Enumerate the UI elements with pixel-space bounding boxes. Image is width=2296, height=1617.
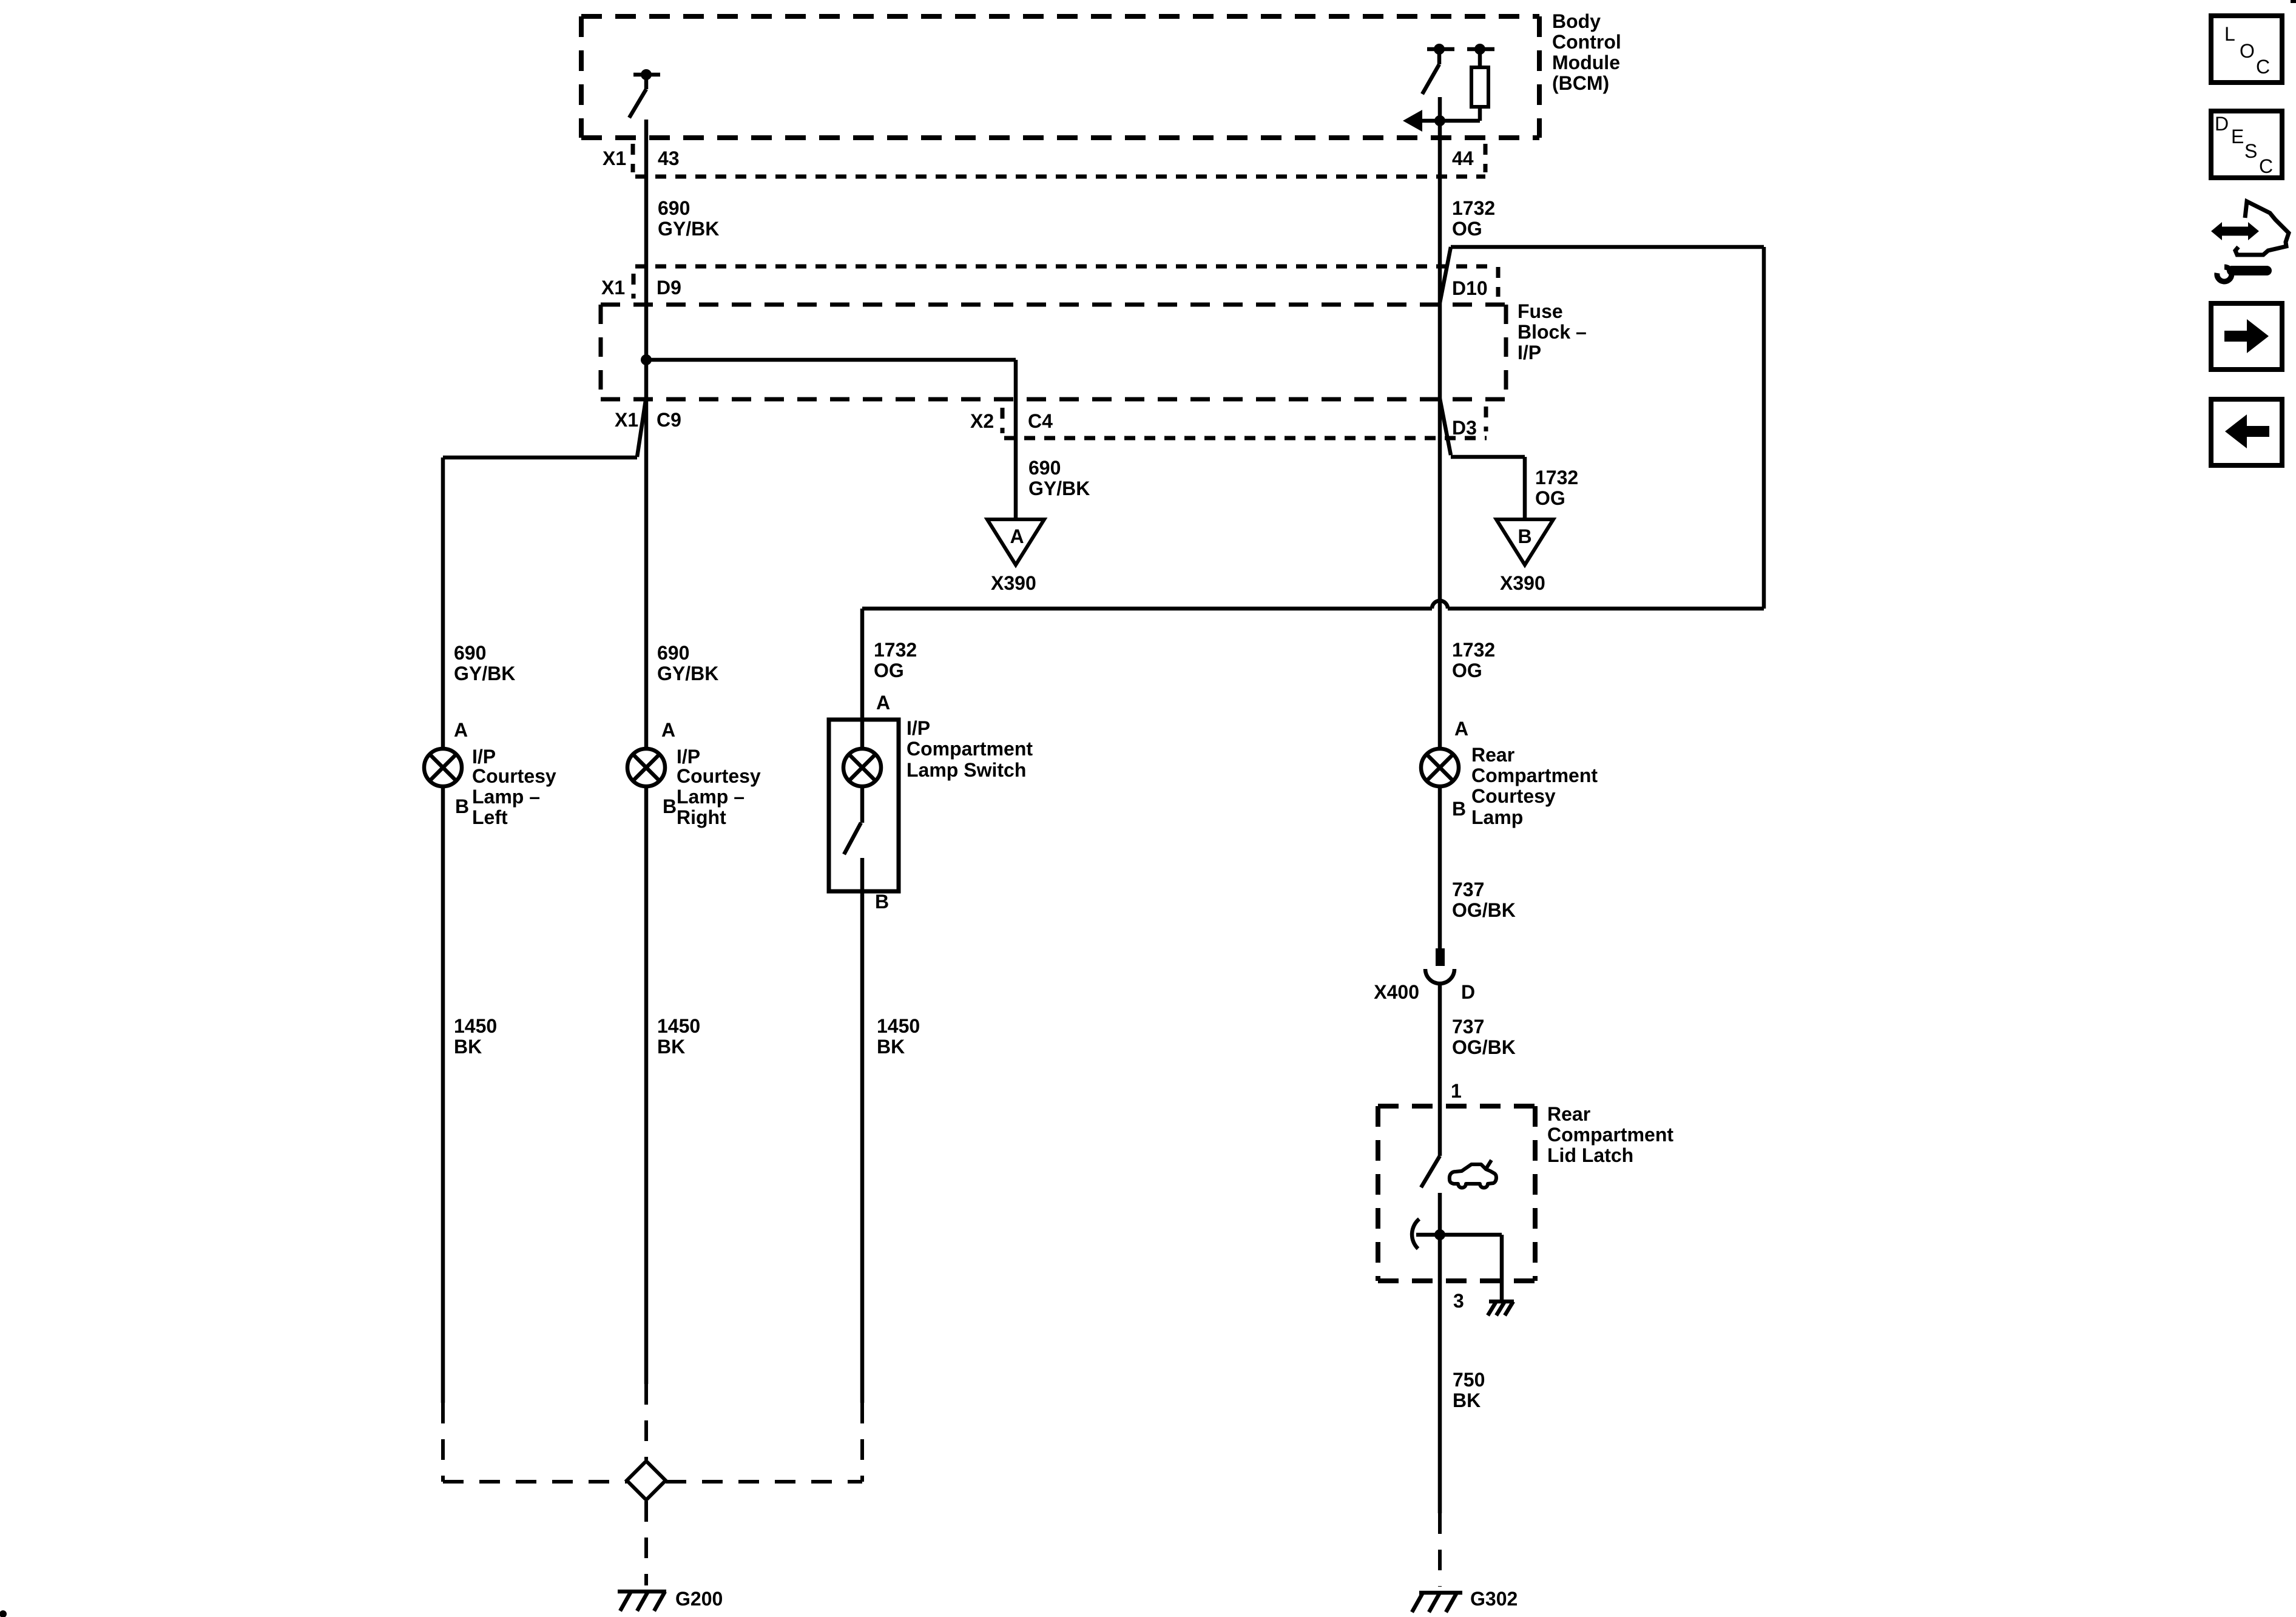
svg-text:1732: 1732 xyxy=(1452,639,1495,661)
svg-text:I/P: I/P xyxy=(907,717,930,739)
svg-text:C: C xyxy=(2256,56,2270,78)
svg-text:Lid Latch: Lid Latch xyxy=(1547,1144,1633,1166)
svg-text:3: 3 xyxy=(1453,1290,1464,1312)
svg-text:I/P: I/P xyxy=(677,746,700,768)
svg-text:D10: D10 xyxy=(1452,277,1488,299)
svg-text:690: 690 xyxy=(1028,457,1061,479)
svg-text:A: A xyxy=(1010,525,1024,547)
svg-text:1450: 1450 xyxy=(454,1015,497,1037)
svg-text:Rear: Rear xyxy=(1471,744,1514,766)
svg-text:43: 43 xyxy=(658,147,680,169)
svg-text:1732: 1732 xyxy=(1452,197,1495,219)
svg-text:OG/BK: OG/BK xyxy=(1452,1036,1516,1058)
svg-text:Compartment: Compartment xyxy=(1547,1124,1673,1146)
svg-text:B: B xyxy=(1452,798,1466,820)
svg-text:690: 690 xyxy=(657,642,689,664)
svg-text:A: A xyxy=(661,719,675,741)
svg-text:G200: G200 xyxy=(675,1588,723,1610)
svg-text:B: B xyxy=(663,795,677,817)
svg-text:737: 737 xyxy=(1452,879,1484,900)
svg-text:Control: Control xyxy=(1552,31,1621,53)
svg-text:B: B xyxy=(875,891,889,913)
svg-text:BK: BK xyxy=(657,1036,685,1058)
svg-text:BK: BK xyxy=(877,1036,905,1058)
svg-text:BK: BK xyxy=(1453,1389,1481,1411)
svg-text:Courtesy: Courtesy xyxy=(472,765,556,787)
svg-text:Fuse: Fuse xyxy=(1518,300,1563,322)
svg-text:Compartment: Compartment xyxy=(907,738,1033,760)
svg-text:Module: Module xyxy=(1552,52,1620,73)
svg-text:1732: 1732 xyxy=(1535,467,1578,488)
svg-text:S: S xyxy=(2244,140,2257,162)
svg-text:750: 750 xyxy=(1453,1369,1485,1391)
svg-text:OG: OG xyxy=(1452,660,1482,681)
svg-text:C9: C9 xyxy=(657,409,681,431)
svg-text:Courtesy: Courtesy xyxy=(677,765,761,787)
svg-text:X390: X390 xyxy=(991,572,1036,594)
svg-text:690: 690 xyxy=(658,197,690,219)
svg-text:E: E xyxy=(2231,126,2244,147)
svg-text:L: L xyxy=(2224,23,2235,45)
svg-text:GY/BK: GY/BK xyxy=(454,663,515,684)
svg-text:X1: X1 xyxy=(615,409,638,431)
svg-text:A: A xyxy=(454,719,468,741)
svg-text:I/P: I/P xyxy=(1518,342,1541,363)
svg-text:B: B xyxy=(1518,525,1531,547)
svg-text:1: 1 xyxy=(1451,1080,1462,1102)
svg-text:Left: Left xyxy=(472,806,508,828)
svg-text:G302: G302 xyxy=(1470,1588,1518,1610)
svg-text:1732: 1732 xyxy=(874,639,917,661)
svg-text:690: 690 xyxy=(454,642,486,664)
svg-text:Block –: Block – xyxy=(1518,321,1587,343)
svg-text:OG: OG xyxy=(1535,487,1565,509)
svg-text:B: B xyxy=(455,795,469,817)
svg-text:1450: 1450 xyxy=(657,1015,700,1037)
svg-text:O: O xyxy=(2240,40,2255,62)
svg-text:Lamp –: Lamp – xyxy=(677,786,745,808)
svg-text:A: A xyxy=(876,692,890,714)
svg-text:Rear: Rear xyxy=(1547,1103,1590,1125)
svg-text:X2: X2 xyxy=(970,410,994,432)
svg-text:(BCM): (BCM) xyxy=(1552,72,1609,94)
svg-text:Lamp: Lamp xyxy=(1471,806,1523,828)
svg-text:Body: Body xyxy=(1552,10,1601,32)
svg-text:OG/BK: OG/BK xyxy=(1452,899,1516,921)
svg-text:GY/BK: GY/BK xyxy=(658,218,719,240)
svg-text:Compartment: Compartment xyxy=(1471,765,1598,786)
svg-text:X400: X400 xyxy=(1374,981,1419,1003)
svg-text:X390: X390 xyxy=(1500,572,1545,594)
svg-text:Courtesy: Courtesy xyxy=(1471,785,1556,807)
svg-text:OG: OG xyxy=(1452,218,1482,240)
svg-text:737: 737 xyxy=(1452,1016,1484,1038)
svg-text:C4: C4 xyxy=(1028,410,1053,432)
svg-text:D3: D3 xyxy=(1452,417,1477,439)
svg-text:X1: X1 xyxy=(603,147,626,169)
svg-text:Lamp –: Lamp – xyxy=(472,786,540,808)
svg-text:X1: X1 xyxy=(601,277,625,299)
svg-text:GY/BK: GY/BK xyxy=(1028,478,1090,499)
svg-text:Right: Right xyxy=(677,806,726,828)
svg-text:D: D xyxy=(1461,981,1475,1003)
svg-text:D: D xyxy=(2215,113,2229,135)
svg-text:GY/BK: GY/BK xyxy=(657,663,718,684)
svg-text:A: A xyxy=(1454,718,1468,740)
svg-text:1450: 1450 xyxy=(877,1015,920,1037)
svg-text:OG: OG xyxy=(874,660,904,681)
svg-text:C: C xyxy=(2259,155,2273,177)
svg-text:44: 44 xyxy=(1452,147,1474,169)
svg-text:I/P: I/P xyxy=(472,746,496,768)
svg-text:D9: D9 xyxy=(657,277,681,299)
svg-text:Lamp Switch: Lamp Switch xyxy=(907,759,1026,781)
svg-text:BK: BK xyxy=(454,1036,482,1058)
